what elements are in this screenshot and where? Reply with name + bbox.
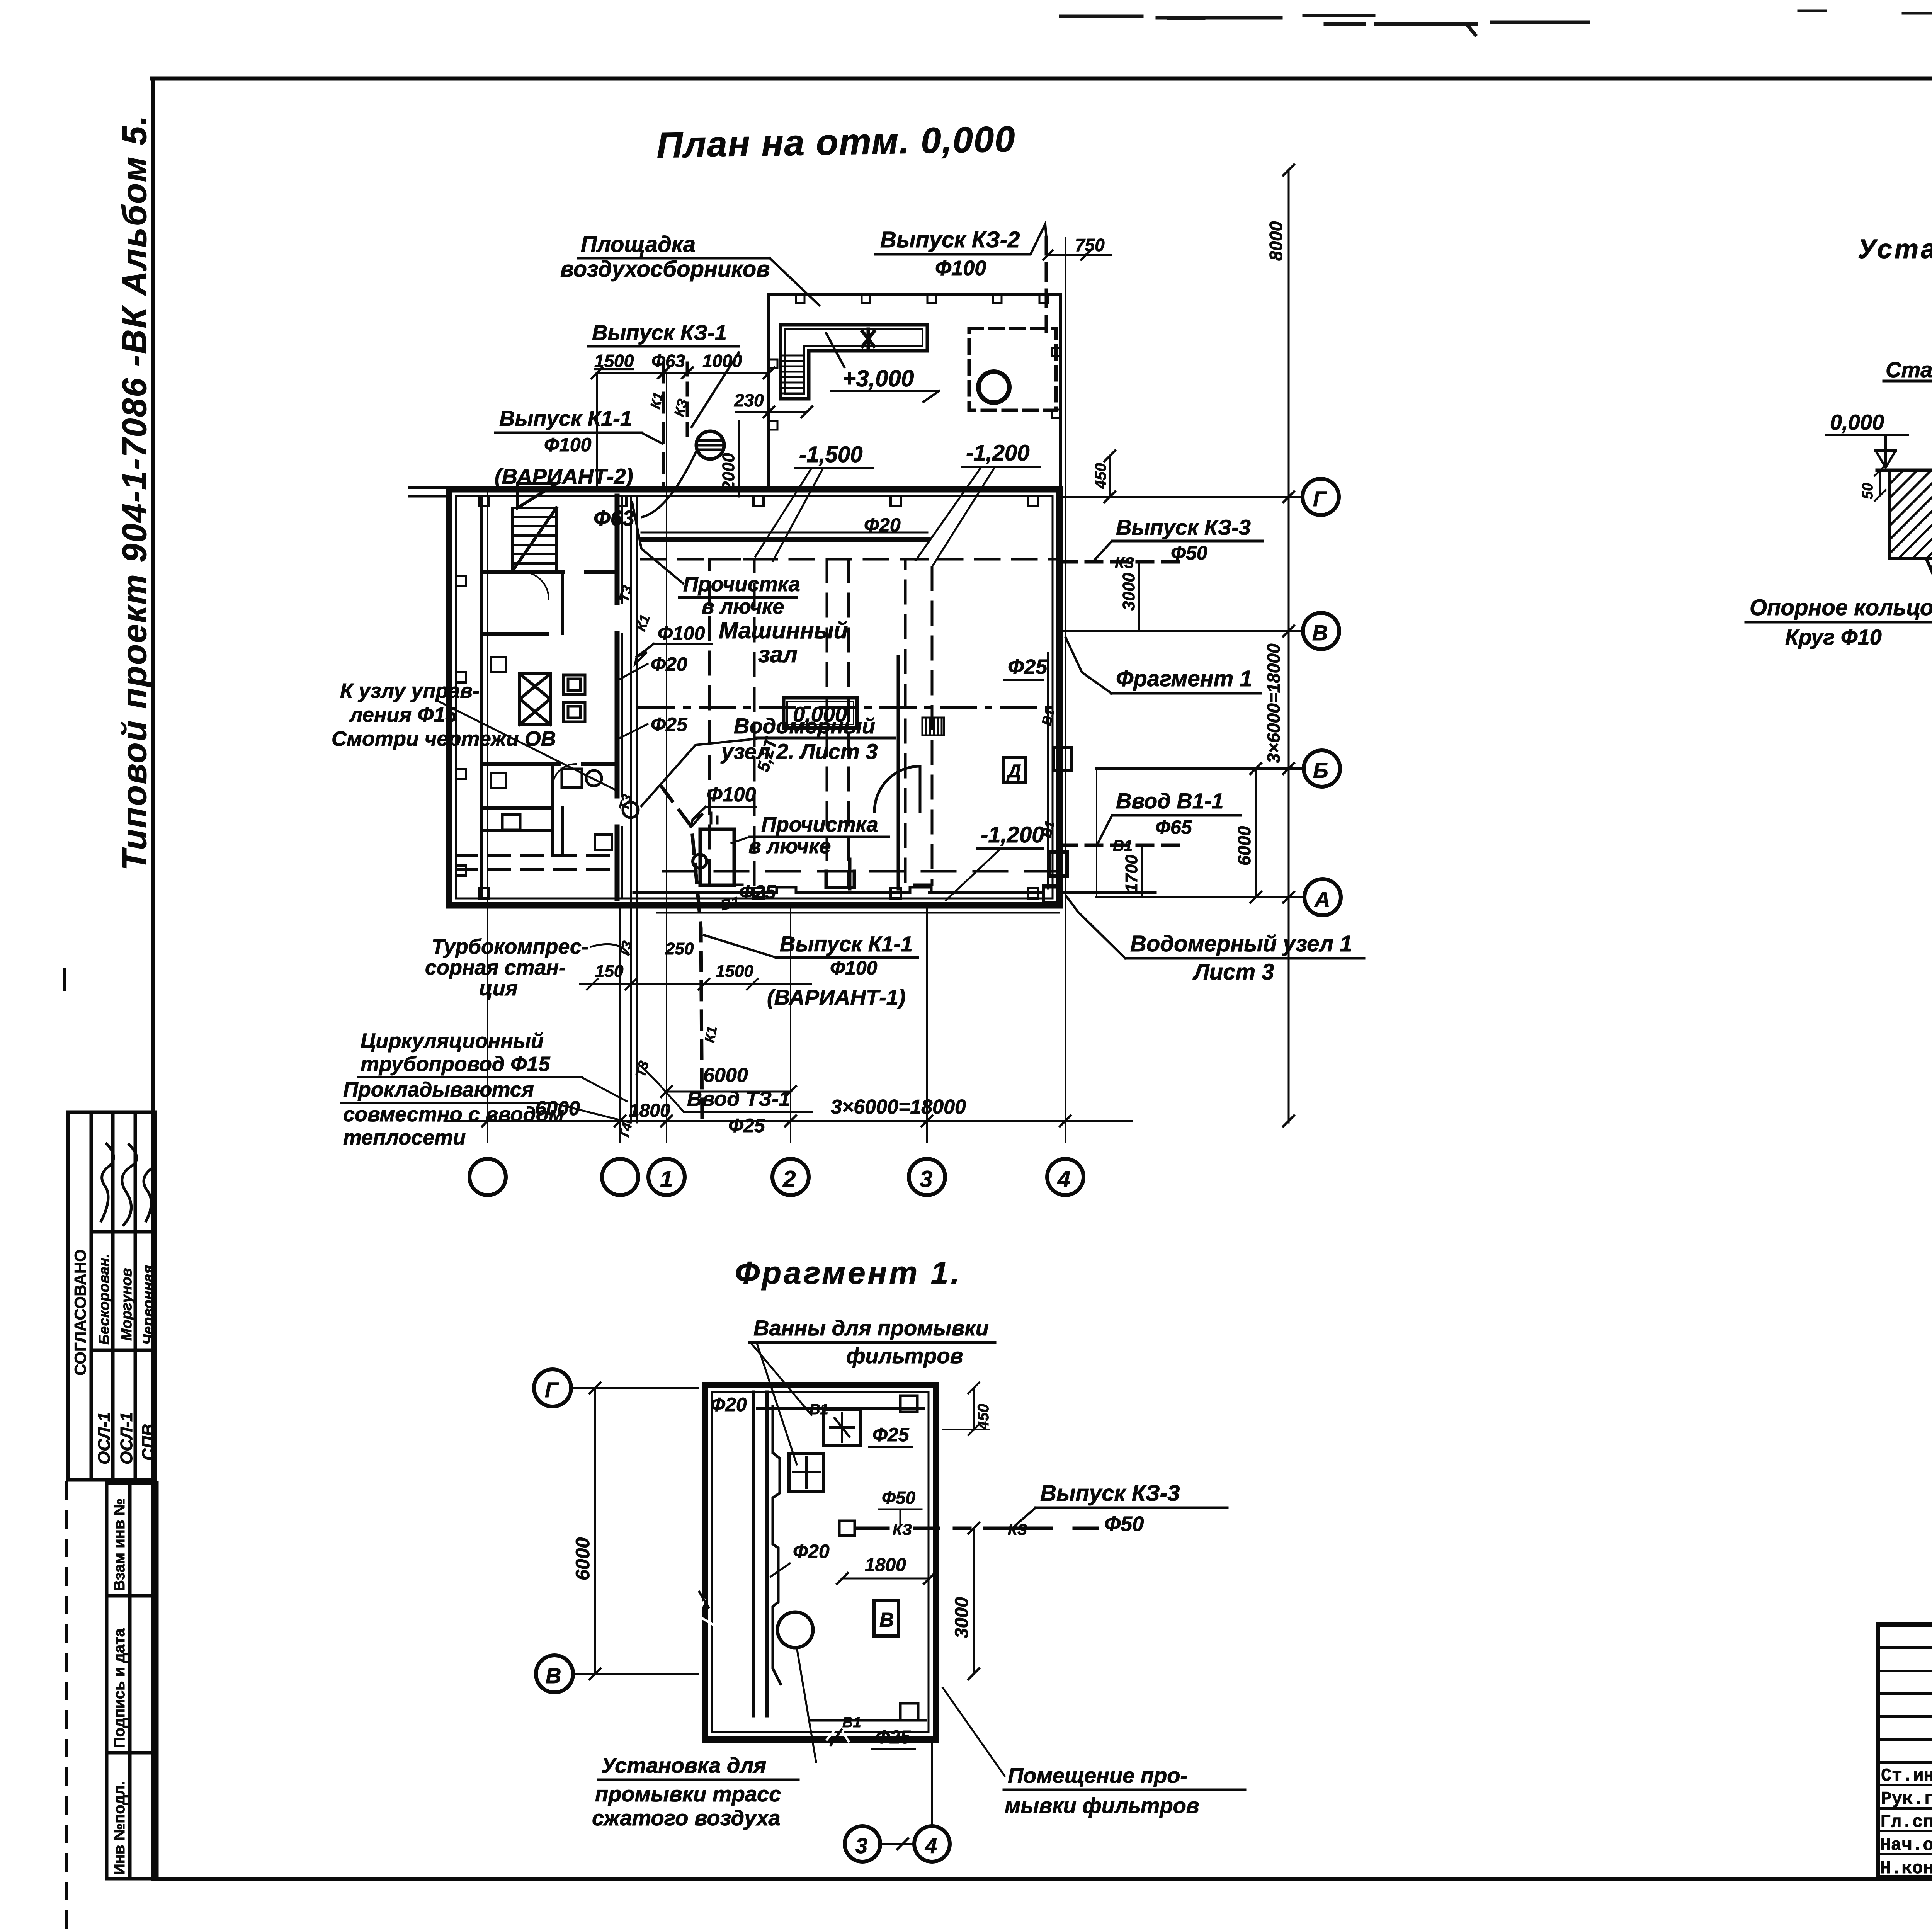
row3 signature [144,1169,151,1221]
dashed riser K3-2 vertical [1045,238,1048,332]
centre dash-dot line of hall [639,706,1057,709]
svg-text:(ВАРИАНТ-2): (ВАРИАНТ-2) [495,464,633,488]
leader from +3,000 to walkway [826,333,844,367]
K1 dashed riser (upper, variant-2) [662,363,665,489]
drawing frame: top border line [152,77,1932,81]
svg-text:Ст.инж: Ст.инж [1881,1766,1932,1786]
dashed vertical line bottom-left outside frame [65,1483,68,1930]
svg-text:А: А [1314,887,1330,912]
svg-text:Взам инв №: Взам инв № [111,1498,128,1591]
SECTION:DETAIL [1746,234,1932,670]
svg-text:450: 450 [1092,463,1109,489]
svg-text:Установка для: Установка для [601,1753,766,1777]
svg-text:В: В [1312,621,1328,645]
bath 1 [824,1410,860,1445]
svg-text:трубопровод Ф15: трубопровод Ф15 [361,1053,551,1076]
walkway inner line [785,329,923,394]
drain start box [839,1521,855,1536]
tank circle [978,372,1009,403]
dashed foundation channel A [709,559,754,885]
svg-text:В: В [546,1663,561,1688]
leader to water meter [641,739,756,806]
leader КЗ-2 to riser [1031,224,1046,253]
svg-text:В1: В1 [842,1714,861,1731]
1800 dim [842,1578,929,1580]
svg-text:Ф50: Ф50 [1171,542,1207,564]
svg-text:250: 250 [665,939,694,958]
svg-text:3×6000=18000: 3×6000=18000 [1264,643,1284,763]
svg-text:Подпись и дата: Подпись и дата [111,1628,128,1748]
svg-text:в лючке: в лючке [748,835,831,858]
svg-text:Ф20: Ф20 [864,514,901,536]
svg-text:Моргунов: Моргунов [119,1268,135,1341]
svg-text:3: 3 [920,1166,932,1192]
row2 signature [122,1145,137,1225]
upper platform (area of air collectors) outline [769,294,1061,489]
svg-text:Водомерный узел 1: Водомерный узел 1 [1130,931,1352,956]
svg-text:Турбокомпрес-: Турбокомпрес- [432,935,588,958]
extra interior partitions left block [482,572,562,855]
450 dim top right [973,1388,975,1430]
fragment axis circle В [536,1655,573,1692]
vent mark on walkway [862,329,874,349]
svg-text:230: 230 [734,390,764,410]
svg-text:Ф20: Ф20 [793,1541,830,1562]
svg-text:В1: В1 [1113,837,1133,854]
svg-text:150: 150 [595,962,624,981]
svg-text:Прокладываются: Прокладываются [343,1078,534,1101]
svg-text:Ф100: Ф100 [935,257,986,280]
50 dim left small [1879,470,1881,495]
centerline dash through lower bay [663,870,1057,873]
svg-text:1700: 1700 [1122,855,1141,893]
fragment axis circle Г [534,1369,571,1406]
svg-text:1800: 1800 [629,1100,670,1121]
lower left stamp boxes [107,1483,157,1879]
small ladder in hall [922,718,944,735]
svg-text:Г: Г [1313,486,1327,511]
small dim 150 250 1500 [580,983,811,985]
wall break marks [697,1600,849,1741]
pilaster squares on left wall [456,576,466,876]
fragment outer walls [705,1385,936,1740]
approval table (Согласовано) rotated, left margin [68,1112,155,1480]
svg-text:Ф65: Ф65 [1155,816,1192,838]
building outer wall [449,489,1060,905]
vertical guides for dims [597,373,769,489]
column: СОГЛАСОВАНО header strip [90,1112,93,1480]
svg-text:Фрагмент 1: Фрагмент 1 [1116,666,1252,691]
floor top surface lines [1877,469,1932,472]
SECTION:PLAN [332,165,1364,1195]
svg-text:Лист 3: Лист 3 [1192,959,1274,985]
corridor dashed walls at bottom of left block [456,855,617,869]
svg-text:воздухосборников: воздухосборников [560,257,770,282]
extra fixtures [491,657,612,850]
left block separating wall (to machine hall) [615,496,620,898]
leader to Ф63 [642,451,696,517]
dashed foundation channel B [827,559,849,885]
svg-text:3×6000=18000: 3×6000=18000 [831,1096,966,1118]
svg-text:3000: 3000 [952,1597,972,1638]
bath 2 [789,1454,824,1492]
drawing frame: bottom border line [153,1877,1932,1881]
svg-text:Д: Д [1006,761,1021,782]
svg-text:фильтров: фильтров [846,1344,963,1368]
svg-text:Ф50: Ф50 [1104,1512,1144,1536]
right axis row В [1063,630,1303,632]
left block inner longitudinal wall [480,496,483,898]
leaders of pipe labels [618,664,648,739]
svg-text:Выпуск К1-1: Выпуск К1-1 [499,406,632,430]
boxed В room label [874,1600,899,1636]
B1 pipe along top [757,1407,923,1410]
svg-text:1000: 1000 [702,351,742,371]
svg-text:К узлу управ-: К узлу управ- [340,679,480,702]
lower bedding slab hatched [1926,558,1932,627]
inner divider lines [128,1483,132,1879]
pilaster squares on bottom wall [479,888,1038,898]
svg-text:КЗ: КЗ [893,1521,912,1538]
svg-text:Гл.спец: Гл.спец [1880,1812,1932,1832]
small door openings [522,572,549,599]
solid riser line right of hall [897,657,900,889]
svg-text:1500: 1500 [594,351,634,371]
svg-text:Рук.гр: Рук.гр [1881,1789,1932,1809]
interior wall y2090 [482,806,551,810]
svg-text:-1,500: -1,500 [799,442,862,467]
outfall circle K3-1 [696,431,724,459]
КЗ-3 dashed drain line [857,1527,1008,1530]
svg-text:750: 750 [1075,235,1105,255]
svg-text:8000: 8000 [1266,221,1286,261]
3000 vertical dim [973,1528,975,1674]
svg-text:1800: 1800 [865,1555,906,1575]
bottom axis vertical guide lines [488,238,1065,1142]
svg-text:450: 450 [975,1404,992,1430]
door quarter arc bottom of hall [874,766,920,812]
svg-text:в лючке: в лючке [702,595,784,618]
K1 dashed diagonal to lower prochistka [662,787,702,1122]
3000 dim between КЗ-3 and В [1138,562,1140,631]
right wall niche boxes (water meter unit 1) [1043,748,1071,903]
svg-text:Опорное кольцо: Опорное кольцо [1750,595,1932,620]
zero level box [784,698,857,728]
svg-text:1: 1 [660,1166,673,1192]
svg-text:(ВАРИАНТ-1): (ВАРИАНТ-1) [767,985,906,1009]
water meter unit 2 box [700,829,734,885]
svg-text:Выпуск К1-1: Выпуск К1-1 [780,932,913,956]
thin second face of separating wall [621,496,623,898]
corner notch top right [900,1396,917,1412]
B1 pipe line inside right wall [1047,653,1049,889]
svg-text:2: 2 [782,1166,796,1192]
svg-text:Ванны для промывки: Ванны для промывки [753,1316,989,1340]
washing unit circle [777,1612,813,1648]
svg-text:6000: 6000 [572,1537,594,1580]
svg-text:Машинный: Машинный [719,617,848,643]
boxed letter Д [1003,757,1026,782]
svg-text:Выпуск КЗ-2: Выпуск КЗ-2 [880,227,1020,252]
stair upper flight triangle [518,484,556,508]
В1 pipe line inside bottom wall with pilaster bumps [634,891,1155,894]
svg-text:Ф50: Ф50 [882,1488,915,1508]
svg-text:Нач.от.: Нач.от. [1880,1835,1932,1855]
svg-text:ция: ция [479,977,518,1000]
svg-text:ОСЛ-1: ОСЛ-1 [117,1412,136,1464]
tank dashed square with circle [969,328,1056,410]
450 dim near Г [1109,456,1111,497]
svg-text:0,000: 0,000 [1830,410,1884,434]
vertical dim 6000 [594,1388,596,1674]
svg-text:Прочистка: Прочистка [683,573,800,596]
line from axis 4 up to fragment [931,1740,933,1826]
dashed line below top wall [641,558,1057,561]
svg-text:Ф25: Ф25 [1008,655,1048,679]
svg-text:сорная стан-: сорная стан- [425,956,566,979]
svg-text:3: 3 [855,1833,867,1858]
svg-text:КЗ: КЗ [1115,554,1134,571]
svg-text:1500: 1500 [716,962,753,981]
svg-text:Ввод В1-1: Ввод В1-1 [1116,789,1224,813]
svg-text:50: 50 [1860,483,1876,499]
svg-text:Прочистка: Прочистка [761,813,878,836]
svg-text:Ф100: Ф100 [658,622,705,644]
axis circles bottom [469,1159,506,1195]
inner face of outer walls [456,496,1053,898]
leader К1-1 to riser [641,433,662,444]
SECTION:STAMP [1878,1483,1932,1910]
svg-text:Ф25: Ф25 [872,1424,910,1446]
svg-text:Выпуск КЗ-1: Выпуск КЗ-1 [592,320,727,345]
svg-text:Б: Б [1313,758,1328,782]
svg-text:Ф63: Ф63 [651,351,685,371]
right axis row А [1097,896,1304,898]
dim 230 near platform left [736,411,807,413]
svg-text:Ф20: Ф20 [710,1394,747,1415]
svg-text:Червонная: Червонная [140,1265,156,1345]
svg-text:6000: 6000 [703,1064,748,1087]
svg-text:ления Ф15: ления Ф15 [349,703,457,726]
interior wall y1977 [482,762,617,766]
svg-text:2000: 2000 [719,453,738,491]
svg-text:Смотри чертежи ОВ: Смотри чертежи ОВ [332,727,556,750]
svg-text:Круг Ф10: Круг Ф10 [1785,625,1882,649]
svg-text:мывки фильтров: мывки фильтров [1005,1793,1199,1818]
interior wall y1640 [482,632,548,636]
leader to hatch [632,502,683,583]
svg-text:Водомерный: Водомерный [734,714,875,738]
svg-text:Сталь листовая: Сталь листовая [1886,357,1932,382]
svg-text:+3,000: +3,000 [842,366,914,391]
svg-text:Инв №подл.: Инв №подл. [111,1781,128,1875]
svg-text:4: 4 [1057,1166,1070,1192]
svg-text:промывки трасс: промывки трасс [595,1782,781,1806]
svg-text:ОСЛ-1: ОСЛ-1 [95,1412,114,1464]
torn paper edge marks top right [1799,11,1932,14]
svg-text:План на отм. 0,000: План на отм. 0,000 [656,119,1016,165]
right vertical dimension chain [1288,170,1290,1122]
leader to platform [770,258,819,305]
cell dividers (signature / name / unit) [91,1230,155,1234]
Выпуск КЗ-3 dashed line [1061,560,1188,564]
SECTION:FRAGMENT [534,1255,1245,1862]
box Взам инв № [107,1483,157,1596]
platform edge squares [769,294,1061,430]
fixtures lower room [502,769,602,830]
main title block outer [1878,1625,1932,1877]
Ввод В1-1 dashed line [1061,844,1182,847]
dashed foundation channel C [905,559,932,885]
svg-text:совместно с вводом: совместно с вводом [343,1103,564,1126]
svg-text:Н.контр: Н.контр [1880,1859,1932,1879]
svg-text:Г: Г [545,1378,559,1402]
box Подпись и дата [107,1596,157,1753]
svg-text:теплосети: теплосети [343,1126,466,1149]
interior partition wall [753,1392,767,1716]
svg-text:сжатого воздуха: сжатого воздуха [592,1806,780,1830]
svg-text:4: 4 [925,1833,937,1858]
water meter circle on separating wall [623,802,638,818]
leader from unit down to label [797,1648,816,1762]
svg-text:Выпуск КЗ-3: Выпуск КЗ-3 [1116,515,1251,539]
svg-text:Циркуляционный: Циркуляционный [361,1029,544,1053]
bottom B1 pipe [811,1719,925,1722]
svg-text:СОГЛАСОВАНО: СОГЛАСОВАНО [71,1249,89,1376]
T3 double riser pipes vertical [631,496,637,1122]
svg-text:зал: зал [758,641,798,667]
top-left stair [512,484,556,571]
zigzag pipe along partition [773,1406,781,1684]
svg-text:Фрагмент 1.: Фрагмент 1. [735,1255,962,1291]
pilaster squares on top wall [479,496,1038,506]
platform walkway L-shape [781,325,927,399]
svg-text:Установка прочистки в лючке: Установка прочистки в лючке [1858,234,1932,264]
box Инв № подл [107,1753,157,1879]
svg-text:Ф63: Ф63 [594,506,634,530]
secondary vertical dim 6000 (Б-А) [1255,769,1257,897]
cross symbol on centerline [826,859,854,889]
bottom axis circles 3 and 4 [845,1826,880,1862]
svg-text:Ф100: Ф100 [707,784,756,806]
toilet fixtures upper room [563,675,585,722]
svg-text:Ф100: Ф100 [830,957,878,979]
dim 2000 rotated [738,421,740,497]
svg-text:Типовой проект 904-1-7086 -В: Типовой проект 904-1-7086 -ВК Альбом 5. [115,114,153,871]
loading stub left of building [410,488,449,496]
K3 dashed riser (upper) [686,363,689,439]
left part row lines [1878,1648,1932,1854]
svg-text:3000: 3000 [1119,573,1138,611]
left concrete slab hatched [1889,470,1932,558]
svg-text:К1: К1 [702,1025,720,1044]
row strips dividers [111,1112,115,1480]
right axis row Б [1097,767,1304,770]
K3-2 750 dim [1048,254,1111,256]
drawing frame: left border line [151,78,155,1879]
svg-text:Выпуск КЗ-3: Выпуск КЗ-3 [1040,1481,1180,1506]
torn paper edge marks top center [1061,11,1932,35]
svg-text:Ф25: Ф25 [651,714,688,735]
svg-text:узел 2. Лист 3: узел 2. Лист 3 [720,739,878,764]
svg-text:Площадка: Площадка [581,232,696,257]
corner fixture bottom right [900,1703,918,1720]
1700 dim below В1 [1141,845,1143,897]
secondary dim 6000 [667,1091,791,1093]
row1 signature [101,1144,114,1221]
svg-text:Ф100: Ф100 [544,434,592,456]
svg-text:В: В [879,1609,894,1631]
right axis row Г [1063,496,1303,498]
dim guide for 6000 wing [1096,769,1097,897]
svg-text:Ввод ТЗ-1: Ввод ТЗ-1 [687,1087,790,1111]
machine hall heavy pipe line below top wall [641,537,927,542]
bottom dimension chain line [444,1120,1132,1122]
svg-text:-1,200: -1,200 [966,440,1029,466]
svg-text:СПВ: СПВ [139,1424,158,1461]
svg-text:Ф20: Ф20 [651,653,687,675]
svg-text:Ф25: Ф25 [876,1727,911,1748]
svg-text:-1,200: -1,200 [981,822,1044,847]
svg-text:Ф25: Ф25 [728,1115,765,1136]
svg-text:Бескорован.: Бескорован. [96,1253,112,1345]
platform stair treads [781,355,804,393]
leaders to baths [750,1342,811,1464]
interior wall y1480 [482,570,617,574]
ventilation X-box [520,674,550,724]
leader КЗ-1 to riser [692,352,739,427]
svg-text:Помещение про-: Помещение про- [1008,1763,1187,1787]
svg-text:6000: 6000 [1234,826,1254,866]
dim line top (1500 / 1000) [597,372,769,374]
